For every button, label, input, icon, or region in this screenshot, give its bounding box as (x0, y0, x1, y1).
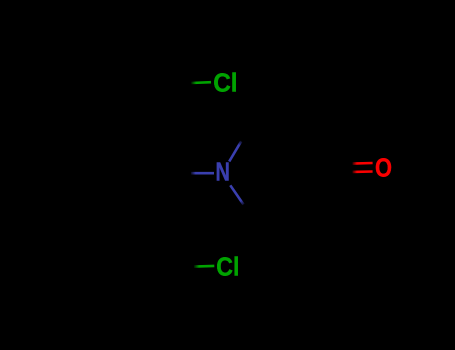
svg-text:Cl: Cl (213, 68, 237, 98)
svg-text:Cl: Cl (216, 252, 239, 282)
double bond C=O, oxygen half, upper line (353, 162, 373, 165)
bond N-C (lower right), nitrogen half (230, 185, 243, 204)
bond C-Cl (top), chlorine half (191, 81, 211, 84)
bond C-Cl (bottom), chlorine half (194, 265, 214, 268)
svg-text:O: O (375, 153, 392, 183)
bond N-C (left), nitrogen half (191, 172, 214, 175)
double bond C=O, oxygen half, lower line (353, 170, 373, 173)
svg-text:N: N (216, 157, 230, 187)
bond N-C (upper right), nitrogen half (229, 141, 241, 161)
